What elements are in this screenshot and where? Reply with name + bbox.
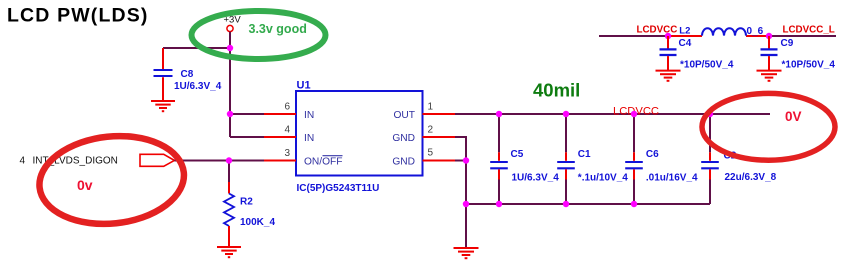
svg-text:3.3v good: 3.3v good [249,22,307,36]
ground below R2 [217,247,241,257]
node junction C1 bottom [563,201,569,207]
svg-text:C9: C9 [781,38,794,49]
wire LCDVCC_L filter net [599,35,836,37]
node junction C6 bottom [631,201,637,207]
pin 5 GND [392,148,455,168]
svg-text:ON/OFF: ON/OFF [304,156,342,167]
connector port INT_LVDS_DIGON [20,154,175,166]
svg-text:1U/6.3V_4: 1U/6.3V_4 [512,172,560,183]
resistor R2 [224,182,275,246]
ground below C8 [151,101,175,111]
svg-text:LCD PW(LDS): LCD PW(LDS) [7,4,149,26]
capacitor C2 [701,114,776,204]
svg-text:2: 2 [428,125,434,136]
wire DIGON net [174,161,264,183]
ground below C9 [757,71,782,81]
capacitor C4 [660,36,734,70]
svg-text:L2: L2 [679,26,690,37]
svg-text:GND: GND [392,133,415,144]
svg-text:LCDVCC: LCDVCC [637,25,678,36]
svg-text:C5: C5 [511,149,524,160]
node junction C9 top [766,33,772,39]
capacitor C8 [154,48,222,100]
pin 3 ON/OFF [264,148,343,167]
node junction pin5/GND [463,157,469,163]
svg-text:*.1u/10V_4: *.1u/10V_4 [578,172,628,183]
svg-text:U1: U1 [297,80,311,92]
pin 2 GND [392,125,455,145]
annotation red ellipse 0v left [35,129,188,231]
net label LCDVCC top [637,25,678,36]
annotation text 40mil [533,80,580,101]
title LCD PW(LDS) [7,4,149,26]
svg-text:*10P/50V_4: *10P/50V_4 [680,59,734,70]
svg-text:3: 3 [284,148,290,159]
node junction C4 top [665,33,671,39]
svg-text:0V: 0V [785,109,802,124]
ground below U1 [454,248,479,258]
svg-text:40mil: 40mil [533,80,580,101]
svg-text:5: 5 [428,148,434,159]
annotation green ellipse 3.3v [192,11,326,59]
power symbol +3V [224,15,242,32]
svg-text:C6: C6 [646,149,659,160]
capacitor C1 [557,114,628,204]
annotation text 3.3v good [249,22,307,36]
net label LCDVCC mid [613,105,659,117]
net label LCDVCC_L [783,25,835,36]
svg-text:4: 4 [20,155,26,166]
pin 6 IN [264,102,314,121]
wire +3V vertical to pins [163,32,264,137]
annotation text 0v [77,177,93,193]
svg-text:IN: IN [304,133,314,144]
svg-text:6: 6 [284,102,290,113]
capacitor C5 [490,114,559,204]
node junction C6 top [631,111,637,117]
svg-text:0v: 0v [77,177,93,193]
svg-text:GND: GND [392,156,415,167]
svg-text:C1: C1 [578,149,591,160]
pin 1 OUT [393,102,455,121]
annotation text 0V [785,109,802,124]
svg-text:1: 1 [428,102,434,113]
svg-text:0_6: 0_6 [747,26,764,37]
svg-text:IN: IN [304,110,314,121]
wire GND net of U1 [455,137,466,247]
wire inductor pins [668,35,769,37]
pin 4 IN [264,125,314,145]
svg-text:*10P/50V_4: *10P/50V_4 [782,59,836,70]
capacitor C9 [761,36,836,70]
capacitor C6 [625,114,698,204]
svg-text:4: 4 [284,125,290,136]
svg-text:OUT: OUT [393,110,415,121]
ground below C4 [656,71,681,81]
svg-text:R2: R2 [240,197,253,208]
node junction C5 bottom [496,201,502,207]
svg-text:C8: C8 [181,69,194,80]
op-amp U1 body [296,80,423,194]
svg-text:C4: C4 [679,38,692,49]
inductor L2 [679,26,763,37]
svg-text:.01u/16V_4: .01u/16V_4 [646,172,698,183]
wire ground bus bottom [466,203,710,205]
svg-text:22u/6.3V_8: 22u/6.3V_8 [725,172,777,183]
node junction C5 top [496,111,502,117]
node junction on +3V at C8 branch [227,45,233,51]
node junction C1 top [563,111,569,117]
annotation red ellipse 0V right [702,93,835,160]
wire OUT net LCDVCC [455,113,770,115]
node junction DIGON/R2 [226,157,232,163]
node junction C2 top [707,111,713,117]
svg-text:LCDVCC_L: LCDVCC_L [783,25,835,36]
svg-text:IC(5P)G5243T11U: IC(5P)G5243T11U [297,183,380,194]
svg-text:100K_4: 100K_4 [240,217,275,228]
svg-text:1U/6.3V_4: 1U/6.3V_4 [174,81,222,92]
node junction bus at U1 [463,201,469,207]
node junction at pin6 branch [227,111,233,117]
